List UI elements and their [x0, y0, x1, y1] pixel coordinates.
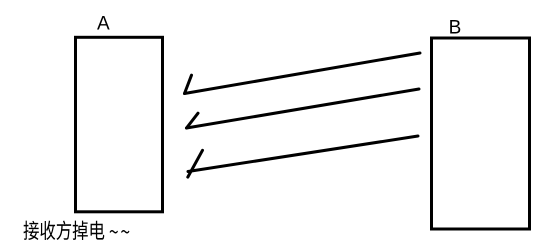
- arrow 1 shaft: [185, 53, 421, 94]
- svg-text:A: A: [97, 14, 110, 35]
- arrow 3 shaft: [188, 136, 418, 172]
- caption char 掉: [73, 221, 88, 240]
- svg-text:B: B: [449, 17, 462, 38]
- arrow 2 head: [187, 113, 199, 128]
- caption char 方: [56, 221, 71, 240]
- caption char 电: [91, 221, 105, 240]
- arrow 3 head: [188, 150, 203, 177]
- box A: [76, 37, 163, 212]
- caption char 收: [40, 221, 55, 240]
- arrow 1 head: [185, 75, 192, 93]
- caption tilde 1: [110, 230, 118, 233]
- box B: [432, 38, 530, 229]
- caption char 接: [23, 221, 38, 240]
- caption tilde 2: [121, 230, 129, 233]
- arrow 2 shaft: [187, 89, 420, 128]
